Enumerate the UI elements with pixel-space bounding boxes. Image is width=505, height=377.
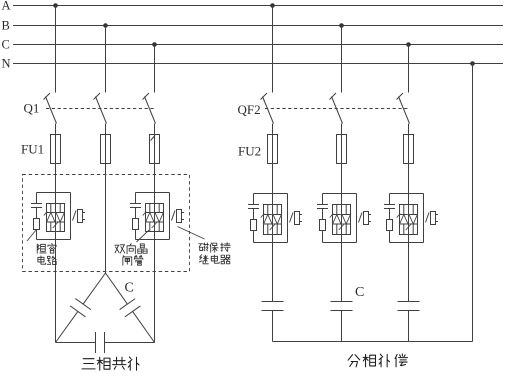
label relay line2 (ji dian qi): [199, 255, 230, 264]
dashed enclosure box left group: [23, 175, 190, 272]
bus line N: [13, 63, 503, 65]
module M4 (right B) snubber capacitor: [322, 194, 324, 205]
wire C drop left: [154, 45, 156, 93]
label triac line1 (shuang xiang jing): [115, 244, 147, 254]
module M1 (left A) main wire through: [55, 193, 57, 240]
svg-text:FU1: FU1: [21, 142, 44, 157]
module M5 (right C) snubber resistor: [389, 209, 391, 220]
capacitor right 1: [272, 243, 274, 302]
fuse FU2 pole 2: [341, 124, 343, 194]
thyristor module M4 (right B): outer box: [323, 193, 357, 195]
capacitor right 2: [341, 243, 343, 302]
breaker Q1 pole 2: [94, 93, 101, 100]
module M1 (left A) triac inner box: [47, 204, 65, 232]
breaker Q1 pole 1: [44, 93, 51, 100]
module M5 (right C) SCR left: [403, 205, 405, 215]
bus line C: [13, 44, 503, 46]
module M2 (left C) snubber capacitor: [135, 193, 137, 204]
junction node C-left: [152, 42, 157, 47]
Q1 linkage dashed: [46, 108, 155, 110]
svg-text:C: C: [355, 285, 364, 300]
module M4 (right B) main wire through: [341, 194, 343, 243]
wire C drop right: [408, 45, 410, 93]
fuse FU2 pole 3: [408, 124, 410, 194]
label triac line2 (zha guan): [123, 256, 143, 266]
wire B drop left: [105, 26, 107, 93]
leader to latching relay: [178, 227, 205, 240]
module M5 (right C) snubber capacitor: [389, 194, 391, 205]
wire A module to delta corner: [55, 240, 57, 343]
module M3 (right A) main wire through: [272, 194, 274, 243]
label RC circuit line2 (dian lu): [38, 256, 56, 265]
caption per-phase compensation: [348, 354, 407, 367]
module M3 (right A) triac inner box: [264, 205, 282, 235]
module M2 (left C) snubber resistor: [135, 208, 137, 219]
wire B drop right: [341, 26, 343, 93]
junction node B-right: [339, 23, 344, 28]
module M4 (right B) SCR left: [336, 205, 338, 215]
svg-text:FU2: FU2: [238, 144, 261, 159]
delta capacitor right diagonal: [106, 273, 128, 304]
junction node C-right: [406, 42, 411, 47]
breaker Q1 pole 3: [143, 93, 150, 100]
junction node N-right: [470, 61, 475, 66]
leader to triac: [137, 230, 150, 242]
thyristor module M1 (left A): outer box: [37, 192, 71, 194]
module M4 (right B) triac inner box: [333, 205, 351, 235]
module M2 (left C) latching relay contact: [172, 211, 176, 221]
breaker QF2 pole 3: [397, 93, 404, 100]
bottom bus right group: [273, 341, 473, 343]
wire N drop right: [472, 64, 474, 342]
label relay line1 (ci bao chi): [199, 243, 230, 253]
module M5 (right C) SCR right: [412, 205, 414, 215]
bus line B: [13, 25, 503, 27]
module M1 (left A) snubber resistor: [36, 208, 38, 219]
module M4 (right B) SCR right: [345, 205, 347, 215]
bus line A: [13, 5, 503, 7]
module M1 (left A) SCR right: [59, 204, 61, 213]
delta capacitor left diagonal: [83, 273, 105, 304]
wire A drop right: [272, 6, 274, 93]
module M5 (right C) main wire through: [408, 194, 410, 243]
module M4 (right B) snubber resistor: [322, 209, 324, 220]
module M2 (left C) main wire through: [154, 193, 156, 240]
delta capacitor bottom: [56, 342, 96, 344]
svg-text:Q1: Q1: [24, 101, 40, 116]
module M3 (right A) SCR left: [267, 205, 269, 215]
junction node A-left: [53, 3, 58, 8]
fuse FU2 pole 1: [272, 124, 274, 194]
module M5 (right C) latching relay contact: [426, 213, 430, 223]
junction node A-right: [270, 3, 275, 8]
module M3 (right A) snubber capacitor: [253, 194, 255, 205]
svg-text:C: C: [2, 38, 10, 52]
QF2 linkage dashed: [265, 108, 409, 110]
module M1 (left A) SCR left: [50, 204, 52, 213]
wire B to delta apex: [105, 164, 107, 274]
module M1 (left A) latching relay contact: [73, 211, 77, 221]
module M2 (left C) triac inner box: [146, 204, 164, 232]
svg-text:N: N: [2, 57, 11, 71]
thyristor module M2 (left C): outer box: [136, 192, 170, 194]
module M4 (right B) latching relay contact: [359, 213, 363, 223]
module M1 (left A) snubber capacitor: [36, 193, 38, 204]
fuse FU1 pole 2: [105, 124, 107, 193]
svg-text:C: C: [125, 281, 134, 296]
module M3 (right A) SCR right: [276, 205, 278, 215]
thyristor module M5 (right C): outer box: [390, 193, 424, 195]
breaker QF2 pole 2: [330, 93, 337, 100]
junction node B-left: [103, 23, 108, 28]
leader to RC snubber: [27, 230, 37, 242]
label RC circuit line1 (zu rong): [37, 244, 56, 254]
fuse FU1 pole 1: [55, 124, 57, 193]
fuse FU1 pole 3: [154, 124, 156, 193]
wire C module to delta corner: [154, 240, 156, 343]
caption three-phase common compensation: [82, 357, 139, 370]
capacitor right 3: [408, 243, 410, 302]
module M2 (left C) SCR left: [149, 204, 151, 213]
breaker QF2 pole 1: [261, 93, 268, 100]
svg-text:B: B: [2, 19, 10, 33]
module M3 (right A) snubber resistor: [253, 209, 255, 220]
svg-text:QF2: QF2: [238, 102, 261, 117]
svg-text:A: A: [2, 0, 11, 13]
module M5 (right C) triac inner box: [400, 205, 418, 235]
module M3 (right A) latching relay contact: [290, 213, 294, 223]
thyristor module M3 (right A): outer box: [254, 193, 288, 195]
module M2 (left C) SCR right: [158, 204, 160, 213]
wire A drop left: [55, 6, 57, 93]
